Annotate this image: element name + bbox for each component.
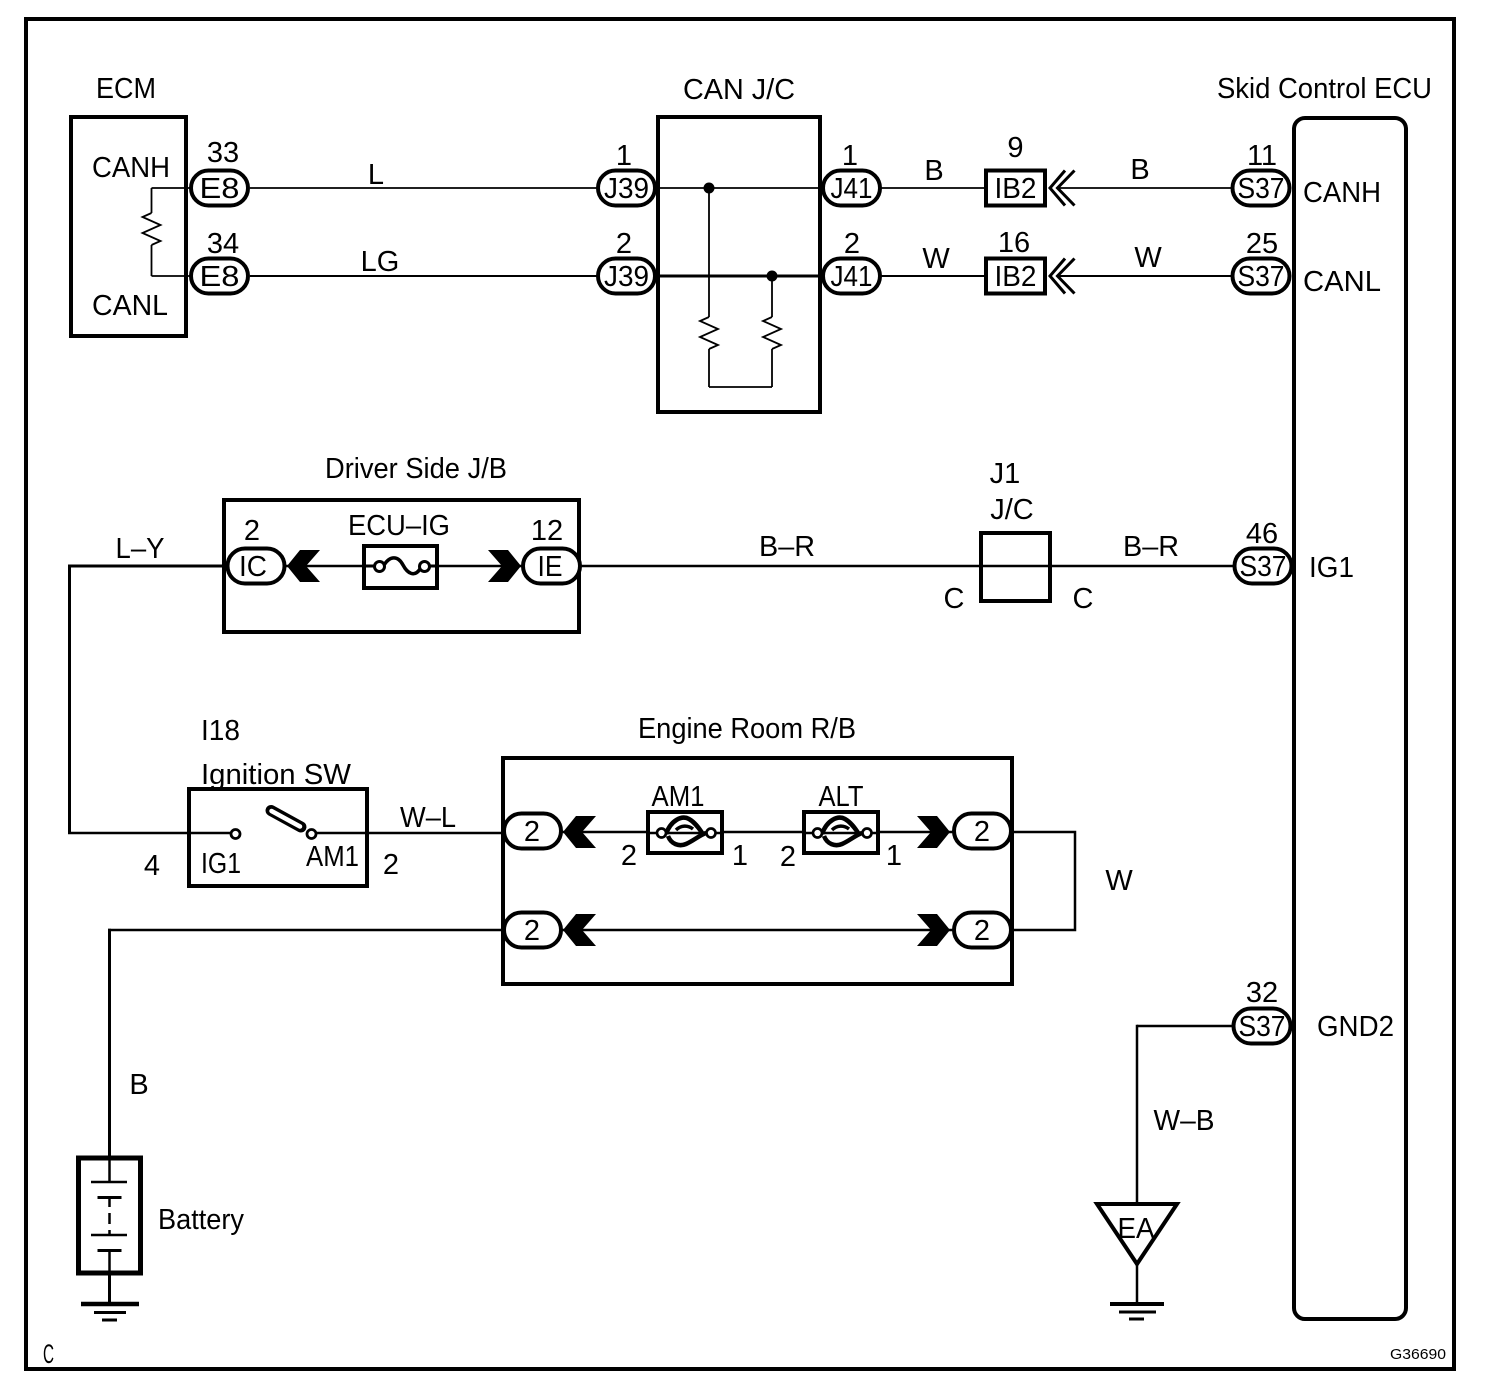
svg-text:25: 25 <box>1246 228 1278 260</box>
node junction dot CANH <box>704 183 715 194</box>
wire row B to battery drop <box>108 929 504 932</box>
wire B battery vertical <box>108 929 111 1160</box>
svg-text:1: 1 <box>732 840 748 872</box>
svg-text:AM1: AM1 <box>652 781 705 813</box>
wire resistor bottom rail <box>709 386 772 388</box>
arrow left row A Engine Room R/B <box>563 816 596 848</box>
svg-text:GND2: GND2 <box>1317 1011 1394 1043</box>
wire W-L (AM1 to Engine Room R/B) <box>311 832 504 835</box>
wire GND2 horizontal <box>1137 1025 1233 1028</box>
svg-text:LG: LG <box>361 246 400 278</box>
connector S37 pin 32 <box>1234 977 1291 1044</box>
battery <box>79 1158 141 1276</box>
svg-text:33: 33 <box>207 137 239 169</box>
svg-text:I18: I18 <box>201 715 240 747</box>
svg-text:J1: J1 <box>990 458 1021 490</box>
wire W-B vertical <box>1136 1025 1139 1206</box>
connector S37 pin 25 <box>1233 228 1290 294</box>
svg-text:IE: IE <box>538 551 563 583</box>
ground connector EA <box>1097 1204 1177 1264</box>
connector S37 pin 11 <box>1233 140 1290 206</box>
wire B (IB2-9 to S37-11) <box>1057 187 1232 189</box>
svg-text:2: 2 <box>974 915 990 947</box>
svg-text:B: B <box>1130 154 1149 186</box>
svg-text:J/C: J/C <box>990 494 1034 526</box>
connector J39 pin 2 <box>598 228 655 294</box>
connector E8 pin 33 <box>191 137 248 206</box>
wire B-R (IE to J1) <box>576 565 983 568</box>
svg-text:C: C <box>43 1339 54 1369</box>
svg-text:J39: J39 <box>604 173 649 205</box>
svg-text:B–R: B–R <box>1123 531 1179 563</box>
resistor inside ECM (CANH-CANL terminator) <box>143 188 191 276</box>
connector 2 lower-right Engine Room R/B <box>954 913 1011 948</box>
svg-text:S37: S37 <box>1239 1011 1286 1043</box>
junction block Driver Side J/B box <box>224 500 579 632</box>
svg-text:B: B <box>924 155 943 187</box>
connector S37 pin 46 <box>1235 518 1292 584</box>
svg-text:CANH: CANH <box>1303 177 1381 209</box>
wire CANH inside CAN J/C <box>655 187 823 189</box>
svg-text:2: 2 <box>524 915 540 947</box>
connector J39 pin 1 <box>598 140 655 206</box>
wire W (J41-2 to IB2-16) <box>881 275 986 277</box>
connector 2 lower-left Engine Room R/B <box>504 913 561 948</box>
connector IE pin 12 <box>523 515 580 584</box>
connector E8 pin 34 <box>191 228 248 294</box>
svg-text:G36690: G36690 <box>1390 1346 1446 1363</box>
svg-text:J41: J41 <box>831 261 873 293</box>
switch terminal AM1 circle <box>307 830 316 839</box>
svg-text:4: 4 <box>144 850 160 882</box>
wire IC to IE inside Driver Side J/B <box>282 565 524 568</box>
svg-text:11: 11 <box>1247 140 1277 172</box>
switch I18 Ignition SW box <box>189 789 367 886</box>
wire row B inside Engine Room R/B <box>560 929 953 932</box>
svg-text:S37: S37 <box>1240 551 1287 583</box>
svg-text:B–R: B–R <box>759 531 815 563</box>
svg-text:W–L: W–L <box>400 802 456 834</box>
junction CAN J/C box <box>658 117 820 412</box>
connector chevron row 2 <box>1050 259 1075 294</box>
arrow left Driver Side J/B <box>287 550 320 582</box>
junction J1 J/C box <box>981 533 1050 601</box>
svg-text:L: L <box>368 159 384 191</box>
wire row A inside Engine Room R/B <box>560 831 953 834</box>
svg-text:S37: S37 <box>1238 261 1285 293</box>
svg-text:IB2: IB2 <box>995 173 1037 205</box>
connector 2 upper-left Engine Room R/B <box>504 814 561 849</box>
connector J41 pin 2 <box>823 228 880 294</box>
node junction dot CANL <box>767 271 778 282</box>
svg-text:Engine Room R/B: Engine Room R/B <box>638 713 856 745</box>
wire L-Y horizontal <box>68 565 232 568</box>
svg-text:E8: E8 <box>200 173 240 205</box>
connector IB2 pin 9 <box>986 132 1045 206</box>
svg-text:W: W <box>1105 865 1133 897</box>
wire B-R (J1 to S37-46) <box>1050 565 1234 568</box>
connector J41 pin 1 <box>823 140 880 206</box>
connector 2 upper-right Engine Room R/B <box>954 814 1011 849</box>
wire through J1 <box>983 565 1050 568</box>
svg-text:ECU–IG: ECU–IG <box>348 510 450 542</box>
svg-text:CANL: CANL <box>92 290 168 322</box>
svg-text:1: 1 <box>616 140 632 172</box>
wire CANL inside CAN J/C <box>655 275 823 278</box>
svg-text:1: 1 <box>842 140 858 172</box>
svg-text:J41: J41 <box>831 173 873 205</box>
svg-text:W–B: W–B <box>1154 1105 1215 1137</box>
svg-text:C: C <box>944 583 965 615</box>
svg-text:2: 2 <box>244 515 260 547</box>
wire L-Y vertical <box>68 565 71 835</box>
svg-text:AM1: AM1 <box>306 841 359 873</box>
svg-text:1: 1 <box>886 840 902 872</box>
arrow left row B Engine Room R/B <box>563 914 596 946</box>
svg-text:IC: IC <box>239 551 267 583</box>
svg-text:16: 16 <box>998 227 1030 259</box>
svg-text:2: 2 <box>780 841 796 873</box>
svg-text:CANL: CANL <box>1303 266 1381 298</box>
svg-text:C: C <box>1073 583 1094 615</box>
svg-text:2: 2 <box>844 228 860 260</box>
svg-text:EA: EA <box>1118 1213 1156 1245</box>
connector IC pin 2 <box>228 515 285 584</box>
wire W (IB2-16 to S37-25) <box>1057 275 1232 277</box>
svg-text:E8: E8 <box>200 261 240 293</box>
svg-text:J39: J39 <box>604 261 649 293</box>
relay block Engine Room R/B box <box>503 758 1012 984</box>
fuse AM1 <box>648 812 722 853</box>
svg-text:46: 46 <box>1246 518 1278 550</box>
ECU ECM box <box>71 117 186 336</box>
svg-text:W: W <box>1134 242 1162 274</box>
fuse ECU-IG <box>364 546 437 588</box>
svg-text:S37: S37 <box>1238 173 1285 205</box>
svg-text:ALT: ALT <box>819 781 864 813</box>
svg-text:2: 2 <box>524 816 540 848</box>
svg-text:IG1: IG1 <box>1309 552 1354 584</box>
ground battery <box>81 1275 139 1320</box>
svg-text:2: 2 <box>974 816 990 848</box>
resistor terminating R2 inside CAN J/C <box>763 276 781 387</box>
switch lever <box>271 811 301 828</box>
arrow right Driver Side J/B <box>488 550 521 582</box>
connector IB2 pin 16 <box>986 227 1045 294</box>
arrow right row B Engine Room R/B <box>917 914 950 946</box>
svg-text:32: 32 <box>1246 977 1278 1009</box>
resistor terminating R1 inside CAN J/C <box>700 188 718 387</box>
svg-text:Driver Side J/B: Driver Side J/B <box>325 453 507 485</box>
wire L (E8-33 to J39-1) <box>250 187 598 189</box>
svg-text:W: W <box>922 243 950 275</box>
fuse ALT <box>804 812 878 853</box>
wire W right loop <box>1012 832 1075 930</box>
svg-text:2: 2 <box>621 840 637 872</box>
svg-text:CANH: CANH <box>92 152 170 184</box>
svg-text:IG1: IG1 <box>201 848 241 880</box>
svg-text:34: 34 <box>207 228 239 260</box>
svg-text:2: 2 <box>383 849 399 881</box>
svg-text:ECM: ECM <box>96 73 156 105</box>
wire ignition IG1 feed <box>68 832 234 835</box>
ground EA <box>1110 1262 1164 1319</box>
wire LG (E8-34 to J39-2) <box>250 275 598 277</box>
svg-text:Battery: Battery <box>158 1204 244 1236</box>
svg-text:12: 12 <box>531 515 563 547</box>
arrow right row A Engine Room R/B <box>917 816 950 848</box>
ECU Skid Control ECU box <box>1294 118 1406 1319</box>
switch terminal IG1 circle <box>231 830 240 839</box>
svg-text:2: 2 <box>616 228 632 260</box>
svg-text:CAN J/C: CAN J/C <box>683 74 795 106</box>
svg-text:L–Y: L–Y <box>116 533 165 565</box>
svg-text:IB2: IB2 <box>995 261 1037 293</box>
connector chevron row 1 <box>1050 171 1075 206</box>
svg-text:Ignition SW: Ignition SW <box>201 759 352 791</box>
svg-text:9: 9 <box>1007 132 1023 164</box>
svg-text:Skid Control ECU: Skid Control ECU <box>1217 73 1432 105</box>
svg-text:B: B <box>129 1069 148 1101</box>
wire B (J41-1 to IB2-9) <box>881 187 986 189</box>
